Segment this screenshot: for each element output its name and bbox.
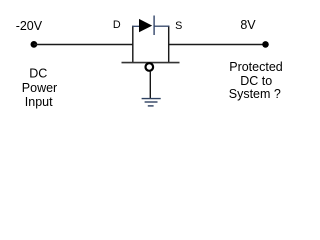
svg-text:8V: 8V bbox=[240, 18, 256, 32]
transistor Q1 right (source) vertical wire bbox=[168, 26, 170, 63]
transistor Q1 left (drain) vertical wire bbox=[132, 26, 134, 63]
transistor Q1 gate bar bbox=[122, 62, 180, 64]
svg-text:DC: DC bbox=[29, 67, 47, 81]
node 8V output terminal bbox=[262, 41, 269, 48]
svg-text:Power: Power bbox=[22, 81, 57, 95]
ground symbol bbox=[142, 99, 161, 106]
svg-text:D: D bbox=[113, 19, 121, 31]
wire gate bubble to ground bbox=[149, 71, 151, 99]
svg-text:Input: Input bbox=[25, 95, 53, 109]
caption DC Power Input bbox=[22, 67, 57, 110]
wire from diode cathode to source vertical bbox=[154, 25, 169, 27]
body diode D1 cathode bar bbox=[153, 16, 155, 36]
wire top-left from drain vertical to body diode anode bbox=[132, 25, 140, 27]
transistor Q1 gate bubble (P-channel) bbox=[146, 63, 154, 71]
svg-text:-20V: -20V bbox=[16, 19, 43, 33]
svg-text:Protected: Protected bbox=[229, 60, 283, 74]
wire MOSFET source side to 8V node bbox=[168, 44, 265, 46]
svg-text:DC to: DC to bbox=[240, 74, 272, 88]
wire from -20V node to MOSFET drain side bbox=[34, 44, 133, 46]
body diode D1 anode triangle bbox=[139, 19, 152, 32]
svg-text:System ?: System ? bbox=[229, 87, 281, 101]
svg-text:S: S bbox=[175, 20, 182, 32]
node -20V input terminal bbox=[31, 41, 38, 48]
caption Protected DC to System ? bbox=[229, 60, 283, 101]
